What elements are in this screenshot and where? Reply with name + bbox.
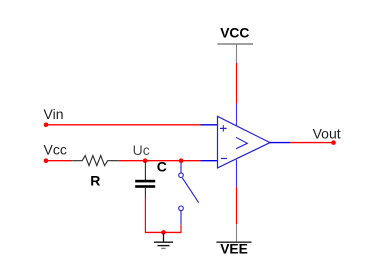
wire capacitor to ground rail (red vertical): [144, 198, 146, 232]
wire op-amp V+ power pin (blue segment above triangle): [236, 104, 238, 126]
node Vcc label: [44, 142, 67, 158]
node Vout label: [313, 125, 341, 141]
svg-text:VCC: VCC: [220, 25, 249, 40]
wire op-amp output (blue segment): [270, 142, 290, 144]
resistor R value label: [90, 172, 100, 188]
wire op-amp - input (blue segment): [201, 160, 218, 162]
wire VEE bar up (gray segment): [236, 224, 238, 242]
switch S blade (open): [182, 178, 198, 203]
wire VCC bar down (gray segment): [236, 44, 238, 63]
capacitor C bottom plate: [135, 185, 155, 188]
switch S bottom stub (blue): [180, 211, 182, 225]
node Vin terminal dot: [44, 123, 49, 128]
node Uc junction dot: [143, 158, 148, 163]
switch S top stub (blue): [180, 161, 182, 173]
VEE supply bar: [216, 241, 251, 243]
svg-text:Vout: Vout: [313, 125, 341, 141]
wire op-amp V- power pin (blue segment below triangle): [236, 160, 238, 187]
capacitor C top lead: [144, 161, 146, 180]
svg-text:Uc: Uc: [133, 142, 150, 158]
capacitor C bottom lead (black part): [144, 188, 146, 198]
wire bottom ground rail (red horizontal): [145, 231, 182, 233]
svg-text:Vcc: Vcc: [44, 142, 67, 158]
wire op-amp + input (blue segment): [201, 124, 218, 126]
svg-text:C: C: [157, 159, 167, 175]
wire resistor to node Uc and switch (red): [119, 160, 201, 162]
op-amp U1 comparator triangle: [218, 116, 271, 167]
switch S top contact circle: [179, 173, 184, 178]
node switch-top junction dot: [179, 158, 184, 163]
ground symbol: [154, 233, 173, 249]
wire VEE up (red segment): [236, 187, 238, 224]
node Vout terminal dot: [331, 140, 336, 145]
svg-text:VEE: VEE: [220, 242, 248, 257]
resistor R: [72, 156, 119, 166]
svg-text:R: R: [90, 172, 100, 188]
node Vcc terminal dot: [44, 158, 49, 163]
wire Vcc to resistor R: [46, 160, 72, 162]
switch S bottom contact circle: [179, 206, 184, 211]
VCC supply bar: [217, 43, 253, 45]
VCC label: [220, 25, 249, 40]
capacitor C top plate: [135, 180, 155, 183]
wire VCC down (red segment): [236, 63, 238, 104]
svg-text:Vin: Vin: [44, 106, 64, 122]
VEE label: [220, 242, 248, 257]
node Vin label: [44, 106, 64, 122]
wire output to Vout (red segment): [290, 142, 334, 144]
capacitor C label: [157, 159, 167, 175]
op-amp U1 comparator chevron mark: [236, 137, 247, 149]
wire switch to ground rail (red): [180, 225, 182, 233]
wire Vin to op-amp + input (red segment): [46, 124, 201, 126]
op-amp U1 + input mark: [220, 125, 227, 131]
op-amp U1 - input mark: [221, 158, 227, 160]
node Uc label: [133, 142, 150, 158]
node ground junction dot: [161, 230, 166, 235]
